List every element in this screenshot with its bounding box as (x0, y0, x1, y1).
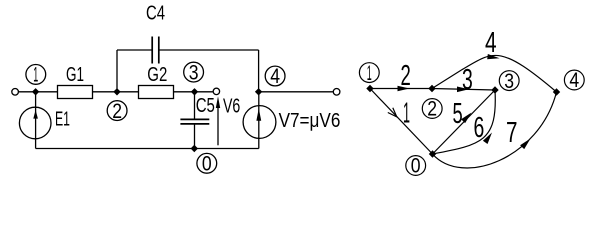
svg-text:0: 0 (411, 155, 421, 178)
graph node 0 dot (429, 150, 436, 157)
branch 5 line (433, 90, 496, 154)
node 1 junction dot (32, 88, 39, 95)
branch 5 arrow (461, 113, 471, 124)
node 2 label circle (107, 101, 127, 121)
svg-text:5: 5 (453, 98, 463, 130)
branch 2 line (370, 88, 432, 90)
branch 7 curve (433, 92, 557, 168)
svg-text:7: 7 (506, 117, 518, 149)
terminal right (333, 89, 340, 96)
graph node 3 dot (491, 86, 498, 93)
capacitor C5 stem upper (194, 92, 196, 120)
svg-text:1: 1 (367, 62, 372, 85)
svg-text:3: 3 (189, 61, 199, 84)
terminal left (12, 89, 19, 96)
node 3 label circle (184, 62, 204, 82)
svg-text:G2: G2 (147, 64, 167, 86)
voltage arrow V6 head (216, 96, 220, 108)
capacitor C5 plates (180, 119, 209, 124)
svg-text:3: 3 (462, 64, 473, 96)
graph node 1 circle (359, 63, 379, 83)
capacitor C5 stem lower (194, 124, 196, 149)
graph node 0 circle (406, 156, 426, 176)
source E1 circle (19, 107, 51, 139)
node 0 label circle (197, 153, 217, 173)
branch 6 curve (433, 90, 496, 154)
node 3 junction dot (191, 88, 198, 95)
bottom rail wire (36, 148, 259, 150)
branch 4 arrow (487, 54, 499, 59)
svg-text:C4: C4 (146, 3, 165, 25)
svg-text:3: 3 (504, 70, 514, 93)
svg-text:4: 4 (270, 65, 280, 88)
voltage arrow V6 terminal circle (213, 88, 219, 94)
resistor G1 (58, 86, 93, 99)
wire top right of C4 (159, 49, 259, 51)
branch 3 line (432, 89, 495, 91)
branch 6 arrow (483, 133, 492, 145)
svg-text:E1: E1 (55, 109, 70, 131)
svg-text:2: 2 (401, 60, 411, 92)
node 2 junction dot (113, 88, 120, 95)
svg-text:1: 1 (33, 64, 38, 87)
node 4 label circle (265, 66, 285, 86)
graph node 2 circle (422, 99, 442, 119)
wire top left of C4 (117, 49, 152, 51)
branch 1 line (370, 89, 433, 155)
node 4 junction dot (255, 88, 262, 95)
branch 4 curve (432, 55, 557, 92)
svg-text:2: 2 (112, 100, 122, 123)
wire riser node2 to top (116, 50, 118, 92)
wire G2 to node 3 to V6 terminal (174, 91, 214, 93)
svg-text:4: 4 (485, 27, 497, 59)
wire input to G1 (19, 91, 58, 93)
graph node 3 circle (499, 71, 519, 91)
source E1 arrow head (33, 110, 38, 119)
graph node 4 circle (564, 70, 584, 90)
svg-text:6: 6 (474, 112, 485, 144)
source V7 stem wire (258, 92, 260, 149)
branch 1 open arrow (388, 108, 397, 117)
svg-text:2: 2 (427, 98, 437, 121)
svg-text:C5: C5 (196, 95, 215, 117)
source V7 arrow head (256, 108, 261, 121)
node 0 junction dot (191, 145, 198, 152)
branch 3 arrow (457, 87, 469, 93)
source E1 stem wire (35, 92, 37, 149)
wire riser top to node 4 (258, 50, 260, 92)
svg-text:V7=μV6: V7=μV6 (279, 110, 341, 132)
graph node 2 dot (428, 85, 435, 92)
svg-text:0: 0 (202, 153, 212, 176)
svg-text:1: 1 (403, 98, 410, 130)
graph node 1 dot (366, 85, 373, 92)
wire G1 to G2 (93, 91, 139, 93)
svg-text:G1: G1 (66, 64, 84, 86)
source V7 circle (243, 106, 276, 139)
graph node 4 dot (553, 88, 560, 95)
node 1 label circle (26, 65, 46, 85)
resistor G2 (139, 86, 174, 99)
branch 2 arrow (398, 86, 410, 92)
svg-text:V6: V6 (223, 95, 240, 117)
capacitor C4 (152, 37, 159, 64)
svg-text:4: 4 (569, 69, 579, 92)
wire node4 to right terminal (259, 91, 334, 93)
branch 7 arrow (520, 139, 530, 150)
voltage arrow V6 stem (217, 107, 219, 145)
